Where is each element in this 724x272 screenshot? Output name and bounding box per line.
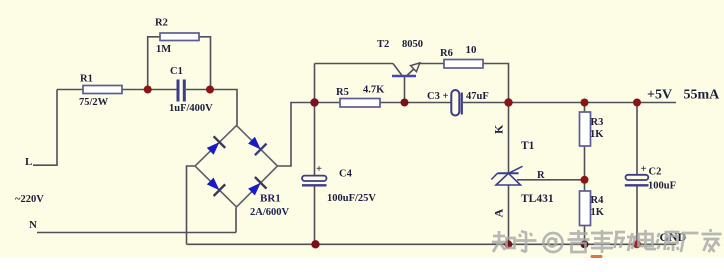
watermark red dash (591, 255, 603, 258)
wire R4 bottom leg (584, 226, 586, 245)
capacitor C4 (302, 176, 327, 186)
junction node R1/R2/C1 (144, 86, 152, 94)
transistor T2 (392, 63, 420, 103)
watermark char zhi (492, 231, 515, 252)
wire T1 cathode leg (508, 103, 510, 174)
svg-text:L: L (25, 156, 32, 168)
junction node R3 top (581, 99, 589, 107)
svg-text:55mA: 55mA (684, 88, 721, 103)
wire C2 bottom leg (636, 186, 638, 245)
wire bridge bottom stub (235, 208, 237, 233)
svg-text:1M: 1M (156, 44, 171, 55)
wire bridge right stub up to node (278, 103, 315, 167)
resistor R4 (580, 191, 591, 226)
wire C2 top leg (636, 103, 638, 176)
svg-text:47uF: 47uF (466, 91, 489, 102)
svg-text:~220V: ~220V (15, 194, 44, 205)
bridge BR1 diamond (195, 126, 278, 208)
svg-text:100uF: 100uF (648, 181, 676, 192)
wire base node to C3 (405, 102, 452, 104)
resistor R3 (580, 112, 591, 146)
capacitor C2 (625, 175, 649, 186)
wire T1 anode leg (508, 185, 510, 244)
svg-text:+: + (316, 164, 322, 175)
wire node to R5 (315, 102, 341, 104)
capacitor C3 (451, 90, 462, 116)
wire output rail +5V (509, 102, 677, 104)
wire N line (37, 232, 236, 234)
junction node T2 base (401, 99, 409, 107)
wire C4 lower leg (314, 186, 316, 245)
capacitor C1 (177, 80, 186, 102)
wire R2 left leg (148, 37, 160, 90)
watermark char yuan (657, 232, 680, 251)
wire R5 to base node (380, 102, 405, 104)
svg-text:R6: R6 (440, 48, 453, 59)
svg-text:R1: R1 (80, 74, 93, 85)
regulator T1 TL431 (491, 166, 522, 185)
watermark char jia (702, 229, 722, 252)
svg-text:+5V: +5V (647, 88, 672, 103)
svg-text:TL431: TL431 (521, 193, 554, 205)
wire R3 top leg (584, 103, 586, 113)
wire L input stub (33, 90, 57, 166)
junction node C4 bottom (311, 240, 319, 248)
wire R1 to C1 (122, 89, 177, 91)
svg-text:8050: 8050 (402, 39, 423, 50)
svg-text:T1: T1 (521, 140, 535, 152)
wire junction to bridge top (210, 90, 237, 126)
svg-text:K: K (492, 124, 506, 134)
svg-text:C2: C2 (649, 167, 662, 178)
svg-text:1K: 1K (591, 207, 605, 218)
watermark char ji (568, 230, 590, 252)
svg-text:C1: C1 (170, 66, 183, 77)
svg-text:4.7K: 4.7K (363, 85, 385, 96)
junction node divider R3/R4/ref (581, 176, 589, 184)
diode BR1 top-left (207, 136, 225, 154)
wire collector top line (315, 63, 394, 65)
svg-text:1K: 1K (590, 129, 604, 140)
watermark char li (615, 232, 637, 251)
svg-text:R3: R3 (591, 117, 604, 128)
wire emitter to R6 (420, 63, 445, 65)
svg-text:R: R (537, 170, 545, 181)
svg-text:1uF/400V: 1uF/400V (169, 103, 213, 114)
junction node C2 bottom (633, 240, 641, 248)
wire TL431 reference lead (517, 179, 585, 181)
svg-text:R4: R4 (591, 195, 605, 206)
junction node rectifier + / C4 / R5 (310, 98, 318, 106)
watermark char dian (639, 230, 657, 249)
svg-text:+: + (641, 164, 647, 175)
watermark char hu (516, 231, 537, 252)
wire R2 right leg (199, 37, 211, 90)
wire node up to collector line (314, 64, 316, 103)
junction node C1 right (206, 86, 214, 94)
wire bridge left stub to ground rail (187, 166, 196, 244)
wire top AC line left of R1 (57, 89, 83, 91)
svg-text:C3 +: C3 + (427, 91, 448, 102)
svg-text:75/2W: 75/2W (79, 97, 109, 108)
wire C1 to right junction (186, 89, 210, 91)
resistor R6 (444, 60, 483, 69)
svg-text:T2: T2 (377, 39, 389, 50)
diode BR1 bottom-left (207, 178, 225, 196)
svg-text:N: N (29, 219, 37, 231)
wire R3 bottom leg (584, 146, 586, 180)
svg-text:10: 10 (466, 44, 478, 56)
svg-text:A: A (492, 209, 506, 218)
diode BR1 top-right (248, 137, 266, 155)
watermark char chang (681, 233, 699, 252)
resistor R1 (83, 86, 122, 94)
resistor R5 (340, 99, 380, 108)
wire C4 upper leg (314, 103, 316, 177)
watermark char shi (591, 230, 613, 253)
wire C3 to output node (463, 102, 509, 104)
wire R6 down to output node (483, 64, 509, 103)
junction node R4 bottom (581, 240, 589, 248)
svg-text:C4: C4 (339, 169, 353, 180)
watermark zhihu text strokes (492, 229, 722, 253)
resistor R2 (160, 33, 199, 41)
junction node T1 anode bottom (504, 240, 512, 248)
wire ground bottom rail (187, 243, 677, 245)
svg-text:R5: R5 (336, 87, 349, 98)
watermark char at-sign (544, 233, 563, 252)
svg-text:R2: R2 (155, 18, 168, 29)
svg-text:100uF/25V: 100uF/25V (327, 193, 376, 204)
wire R4 top leg (584, 180, 586, 191)
svg-text:BR1: BR1 (260, 193, 281, 205)
junction node C2 top (633, 99, 641, 107)
junction node output / C3 / T1 (504, 98, 512, 106)
diode BR1 bottom-right (248, 177, 266, 195)
svg-text:2A/600V: 2A/600V (250, 207, 290, 218)
